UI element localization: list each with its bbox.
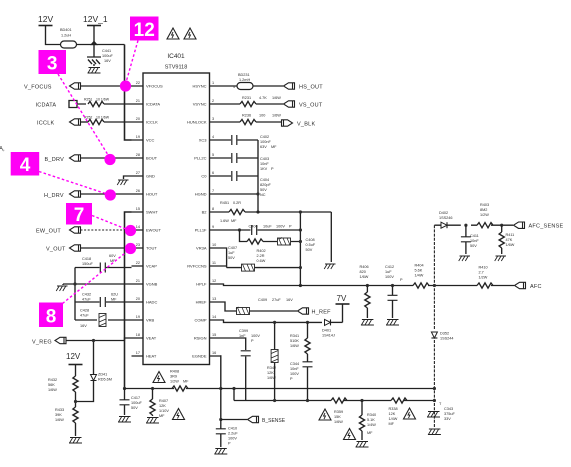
svg-text:100V: 100V xyxy=(385,275,394,279)
svg-text:C404: C404 xyxy=(260,178,269,182)
svg-text:ICDATA: ICDATA xyxy=(36,103,57,109)
resistor R451 0.2R 1.6W MF on B2 row xyxy=(220,201,331,223)
svg-text:VGNB: VGNB xyxy=(146,282,158,287)
wire AFC_SENSE row y=225.2 xyxy=(434,224,513,226)
warning triangle top A xyxy=(167,28,179,39)
ground below R411 xyxy=(495,256,506,261)
svg-text:5: 5 xyxy=(212,153,214,157)
svg-text:1/6W: 1/6W xyxy=(360,275,369,279)
svg-text:6: 6 xyxy=(212,171,214,175)
svg-text:100uF: 100uF xyxy=(131,401,142,405)
svg-text:50V: 50V xyxy=(260,188,267,192)
svg-text:C411: C411 xyxy=(470,234,479,238)
svg-text:HGND: HGND xyxy=(195,192,207,197)
wire callout 3 to B_DRV dot xyxy=(58,74,109,157)
capacitor C410 2.2uF 100V xyxy=(216,420,239,448)
svg-text:1KV: 1KV xyxy=(260,167,268,171)
svg-text:17: 17 xyxy=(136,351,140,355)
svg-text:VEAT: VEAT xyxy=(146,336,157,341)
svg-text:13: 13 xyxy=(212,297,216,301)
svg-text:C428: C428 xyxy=(80,309,89,313)
wire AFC bus on HPLF row y=285.5 xyxy=(222,284,515,286)
svg-text:R342: R342 xyxy=(267,366,276,370)
svg-text:3R9: 3R9 xyxy=(170,375,177,379)
svg-text:12V_1: 12V_1 xyxy=(83,14,108,24)
svg-text:1/6W: 1/6W xyxy=(506,243,515,247)
svg-text:RSIGN: RSIGN xyxy=(194,336,207,341)
warning triangle right of R338 xyxy=(404,408,416,419)
svg-text:R406: R406 xyxy=(360,265,369,269)
capacitor C406 10uF 100V P on PLL1F row xyxy=(222,225,301,236)
wire left vertical x=75 xyxy=(74,268,76,321)
node HS_OUT xyxy=(284,83,324,91)
wire callout 8 to TOUT dot xyxy=(63,250,130,304)
capacitor C428 47uF 16V on VRB row xyxy=(75,309,132,329)
svg-text:63V: 63V xyxy=(260,145,267,149)
svg-text:2.2uF: 2.2uF xyxy=(228,432,238,436)
svg-text:MF: MF xyxy=(183,380,189,384)
node dot VFOCUS xyxy=(120,80,131,91)
svg-text:27uF: 27uF xyxy=(272,298,281,302)
capacitor C399 1nF branch from RSIGN row xyxy=(222,329,261,401)
svg-text:50V: 50V xyxy=(131,406,138,410)
warning triangle left of R340 ground xyxy=(344,429,356,440)
svg-text:R451: R451 xyxy=(220,201,229,205)
svg-text:SWHT: SWHT xyxy=(146,210,158,215)
svg-text:375uF: 375uF xyxy=(444,412,455,416)
svg-text:7: 7 xyxy=(74,205,85,226)
svg-text:P: P xyxy=(290,377,293,381)
svg-text:12K: 12K xyxy=(389,412,396,416)
svg-text:MF: MF xyxy=(367,431,373,435)
svg-text:COMP: COMP xyxy=(195,318,207,323)
wire network common vertical x=300.4 xyxy=(299,212,301,286)
svg-text:21: 21 xyxy=(136,99,140,103)
ground right of network xyxy=(324,264,335,269)
svg-text:1SS246: 1SS246 xyxy=(439,216,453,220)
svg-text:1uF: 1uF xyxy=(228,251,235,255)
svg-text:HSYNC: HSYNC xyxy=(192,84,206,89)
node VS_OUT xyxy=(284,101,323,109)
node EW_OUT xyxy=(36,227,132,235)
svg-text:1/6W: 1/6W xyxy=(334,420,343,424)
IC401 left pin stubs xyxy=(132,86,144,356)
callout box 8 xyxy=(39,303,63,328)
capacitor C402 100nF on XC3 row xyxy=(222,135,278,149)
svg-text:1.6W: 1.6W xyxy=(220,219,229,223)
svg-text:4.7K: 4.7K xyxy=(259,96,267,100)
svg-text:MF: MF xyxy=(159,414,165,418)
svg-text:P: P xyxy=(228,442,231,446)
svg-text:IC401: IC401 xyxy=(167,53,185,60)
svg-text:R231: R231 xyxy=(242,96,251,100)
svg-text:R408: R408 xyxy=(170,370,179,374)
svg-text:V_BLK: V_BLK xyxy=(297,122,315,128)
svg-text:5.1K: 5.1K xyxy=(367,418,375,422)
svg-text:C417: C417 xyxy=(131,396,140,400)
svg-text:C412: C412 xyxy=(385,265,394,269)
svg-text:62U: 62U xyxy=(111,293,118,297)
resistor R404 5.6K 1/4W on AFC bus xyxy=(413,264,429,289)
resistor (hatched) on RVFCCNS row xyxy=(242,264,255,271)
svg-text:EWOUT: EWOUT xyxy=(146,228,161,233)
svg-text:20: 20 xyxy=(136,297,140,301)
svg-text:C432: C432 xyxy=(82,293,91,297)
svg-text:5.6K: 5.6K xyxy=(415,269,423,273)
svg-text:R433: R433 xyxy=(55,408,64,412)
svg-text:23: 23 xyxy=(136,243,140,247)
callout box 3 xyxy=(39,50,67,74)
resistor (hatched) on R402 row xyxy=(278,238,291,245)
svg-text:12: 12 xyxy=(134,20,155,41)
svg-text:MF: MF xyxy=(389,422,395,426)
svg-text:100: 100 xyxy=(259,114,265,118)
svg-text:47uF: 47uF xyxy=(80,314,89,318)
svg-text:10 1/6W: 10 1/6W xyxy=(96,116,110,120)
svg-text:R252: R252 xyxy=(84,116,92,120)
svg-text:10nF: 10nF xyxy=(470,239,479,243)
svg-text:ICCLK: ICCLK xyxy=(37,121,55,127)
svg-text:R236: R236 xyxy=(242,114,251,118)
svg-text:D352: D352 xyxy=(440,332,449,336)
resistor R251 xyxy=(88,101,132,106)
svg-text:18: 18 xyxy=(136,333,140,337)
node H_REF xyxy=(298,308,332,316)
svg-text:100V: 100V xyxy=(276,225,285,229)
resistor R236 100 1/6W on HUNLOCK row xyxy=(222,114,282,125)
ground pair below x=434 xyxy=(427,399,441,435)
svg-text:4: 4 xyxy=(212,135,214,139)
svg-text:2: 2 xyxy=(212,99,214,103)
svg-text:16V: 16V xyxy=(286,298,293,302)
svg-text:100uF: 100uF xyxy=(102,54,113,58)
wire pin16 EGNDE down xyxy=(220,356,223,420)
ground below C412 xyxy=(386,320,399,326)
node 12V_1 power rail xyxy=(77,14,125,57)
svg-text:56K: 56K xyxy=(48,383,55,387)
capacitor C403 10nF on PLL2C row xyxy=(222,153,275,171)
resistor R338 12K on bottom bus xyxy=(389,398,408,426)
svg-text:16V: 16V xyxy=(104,59,111,63)
svg-text:11: 11 xyxy=(212,261,216,265)
svg-text:B_SENSE: B_SENSE xyxy=(262,418,286,424)
capacitor C412 1uF 100V branch xyxy=(385,265,403,318)
svg-text:1nF: 1nF xyxy=(239,334,246,338)
resistor R411 47K branch xyxy=(499,224,515,254)
svg-text:3: 3 xyxy=(212,117,214,121)
svg-text:14: 14 xyxy=(212,315,216,319)
svg-text:C403: C403 xyxy=(260,157,269,161)
svg-text:1/6W: 1/6W xyxy=(267,376,276,380)
wire RVFCCNS row through hatched resistor xyxy=(222,266,301,268)
wire HREF pin row down to H_REF connector row xyxy=(222,302,238,311)
svg-text:D401: D401 xyxy=(322,329,331,333)
wire HGND row to common xyxy=(222,193,259,195)
svg-text:R403: R403 xyxy=(480,203,489,207)
svg-text:PLL1F: PLL1F xyxy=(195,228,207,233)
svg-text:22: 22 xyxy=(136,81,140,85)
svg-text:0.6W: 0.6W xyxy=(257,259,266,263)
svg-text:27: 27 xyxy=(136,171,140,175)
svg-text:C344: C344 xyxy=(290,362,299,366)
svg-text:HUNLOCK: HUNLOCK xyxy=(187,120,207,125)
svg-text:12K: 12K xyxy=(159,404,166,408)
svg-text:1/4W: 1/4W xyxy=(367,423,376,427)
svg-text:12V: 12V xyxy=(38,14,53,24)
svg-text:ICCLK: ICCLK xyxy=(146,120,158,125)
resistor (hatched) on H_REF row xyxy=(237,308,250,315)
svg-text:2.2R: 2.2R xyxy=(257,254,265,258)
ground branch from R451 row xyxy=(330,212,332,262)
node dot B_DRV xyxy=(104,154,115,165)
node B_SENSE xyxy=(221,416,286,424)
node AFC xyxy=(515,282,542,290)
svg-text:100V: 100V xyxy=(290,372,299,376)
svg-text:21: 21 xyxy=(136,279,140,283)
svg-text:820pF: 820pF xyxy=(260,183,271,187)
ground below C441 xyxy=(88,68,101,74)
capacitor C432 47uF 62V on HADC row xyxy=(75,293,132,308)
svg-text:C441: C441 xyxy=(102,49,111,53)
inductor BD231 1.2mH on HSYNC row xyxy=(222,73,284,90)
svg-text:19: 19 xyxy=(136,315,140,319)
svg-text:1: 1 xyxy=(212,81,214,85)
svg-text:VSYNC: VSYNC xyxy=(193,102,207,107)
svg-text:MF: MF xyxy=(111,298,117,302)
svg-text:EW_OUT: EW_OUT xyxy=(36,229,61,235)
svg-text:19: 19 xyxy=(136,135,140,139)
svg-text:12V: 12V xyxy=(66,352,81,361)
svg-text:VRB: VRB xyxy=(146,318,155,323)
node dot TOUT xyxy=(125,243,136,254)
capacitor C418 150uF 60V on VCAP row xyxy=(75,254,132,273)
capacitor C411 10nF 50V branch xyxy=(461,224,479,254)
svg-text:1/4W: 1/4W xyxy=(415,274,424,278)
svg-text:50V: 50V xyxy=(228,256,235,260)
capacitor C408 0.5uF 50V label xyxy=(306,238,316,252)
diode D401 1S414J xyxy=(322,319,343,337)
svg-text:1S414J: 1S414J xyxy=(322,334,335,338)
svg-text:P: P xyxy=(400,278,403,282)
svg-text:V_OUT: V_OUT xyxy=(46,247,66,253)
svg-text:HOUT: HOUT xyxy=(146,192,158,197)
svg-text:P: P xyxy=(251,339,254,343)
IC401 right pin numbers xyxy=(212,81,216,355)
svg-text:12: 12 xyxy=(212,279,216,283)
svg-text:4: 4 xyxy=(233,85,235,89)
svg-text:C408: C408 xyxy=(306,238,315,242)
svg-text:15K: 15K xyxy=(334,415,341,419)
svg-text:BOUT: BOUT xyxy=(146,156,158,161)
svg-text:RVFCCNS: RVFCCNS xyxy=(187,264,207,269)
svg-text:TOUT: TOUT xyxy=(146,246,157,251)
svg-text:1/2W: 1/2W xyxy=(170,380,179,384)
svg-text:HPLF: HPLF xyxy=(196,282,207,287)
warning triangle near R408 xyxy=(153,372,165,383)
svg-text:47K: 47K xyxy=(506,238,513,242)
svg-text:R407: R407 xyxy=(159,399,168,403)
svg-text:C410: C410 xyxy=(228,427,237,431)
svg-text:2.7: 2.7 xyxy=(479,271,484,275)
svg-text:RD5.6M: RD5.6M xyxy=(98,378,112,382)
wire left vertical bus x=124.5 (EHT/V_REG rail) xyxy=(125,212,132,389)
svg-text:22: 22 xyxy=(136,261,140,265)
svg-text:R411: R411 xyxy=(506,233,515,237)
svg-text:C407: C407 xyxy=(228,246,237,250)
svg-text:8M2: 8M2 xyxy=(480,208,487,212)
svg-text:MF: MF xyxy=(231,219,237,223)
node AFC_SENSE xyxy=(514,222,564,230)
node dot H_DRV xyxy=(105,189,116,200)
svg-text:1/6W: 1/6W xyxy=(272,114,281,118)
IC401 left pin names xyxy=(146,84,163,359)
node 7V power xyxy=(336,294,350,322)
svg-text:PLL2C: PLL2C xyxy=(194,156,206,161)
svg-text:EGNDE: EGNDE xyxy=(192,354,207,359)
svg-text:10 1/6W: 10 1/6W xyxy=(96,98,110,102)
svg-text:NC: NC xyxy=(260,193,266,197)
ground below R407 xyxy=(146,418,159,424)
svg-text:A,: A, xyxy=(0,147,5,153)
svg-text:B2: B2 xyxy=(202,210,208,215)
svg-text:15: 15 xyxy=(136,207,140,211)
wire long row y=388.5 to x=434 xyxy=(221,388,435,390)
svg-text:150uF: 150uF xyxy=(82,262,93,266)
svg-text:1.2uH: 1.2uH xyxy=(61,34,71,38)
node H_DRV xyxy=(44,191,132,199)
svg-text:R404: R404 xyxy=(415,264,424,268)
svg-text:39K: 39K xyxy=(55,413,62,417)
svg-text:HADC: HADC xyxy=(146,300,157,305)
wire callout 4 to H_DRV dot xyxy=(39,172,109,195)
svg-text:1/6W: 1/6W xyxy=(290,344,299,348)
svg-text:50V: 50V xyxy=(306,248,313,252)
svg-text:C418: C418 xyxy=(82,257,91,261)
ground at pin 27 GND xyxy=(117,176,131,185)
svg-text:GND: GND xyxy=(146,174,155,179)
svg-text:VFOCUS: VFOCUS xyxy=(146,84,163,89)
svg-text:R359: R359 xyxy=(334,410,343,414)
IC401 left pin numbers xyxy=(136,81,140,355)
callout box 7 xyxy=(66,203,92,225)
wire 12V_1 rail down the left of IC to VCC pin xyxy=(125,45,132,141)
node 12V lower power xyxy=(66,352,83,376)
resistor R406 820 branch xyxy=(360,265,371,318)
svg-text:100V: 100V xyxy=(228,437,237,441)
node ICDATA xyxy=(36,98,110,109)
svg-text:1/2W: 1/2W xyxy=(480,213,489,217)
svg-text:1uF: 1uF xyxy=(385,270,392,274)
svg-text:1/6W: 1/6W xyxy=(48,388,57,392)
resistor R359 15K on bottom bus xyxy=(331,398,347,403)
svg-text:9: 9 xyxy=(212,225,214,229)
svg-text:VR3A: VR3A xyxy=(196,246,207,251)
wire VGNB row to ground xyxy=(63,284,132,285)
node B_DRV xyxy=(45,155,132,163)
callout box 12 xyxy=(130,17,159,41)
svg-text:50V: 50V xyxy=(470,244,477,248)
ground below C411 xyxy=(459,256,470,261)
svg-text:HREF: HREF xyxy=(196,300,207,305)
svg-text:15: 15 xyxy=(212,333,216,337)
diode D402 1SS244 xyxy=(439,211,453,228)
svg-text:MF: MF xyxy=(271,145,277,149)
capacitor C344 10nF on R341 branch xyxy=(290,362,313,381)
svg-text:1/6W: 1/6W xyxy=(272,96,281,100)
ground below R340 xyxy=(356,442,369,448)
node 12V power rail xyxy=(38,14,61,45)
capacitor C417 100uF 50V xyxy=(120,387,143,415)
svg-text:1.2mH: 1.2mH xyxy=(239,78,250,82)
svg-text:AFC: AFC xyxy=(530,284,542,290)
resistor R340 5.1K branch to ground xyxy=(359,401,376,441)
svg-text:820: 820 xyxy=(360,270,366,274)
svg-text:510K: 510K xyxy=(290,339,299,343)
op-amp U1 : IC401 STV9118 deflection processor body xyxy=(143,53,210,365)
wire VR3A row xyxy=(222,248,227,268)
wire bottom row y=388.5 xyxy=(125,388,221,390)
IC401 right pin names xyxy=(187,84,207,359)
resistor R408 3R9 1.6W MF xyxy=(170,370,189,392)
svg-text:14: 14 xyxy=(136,225,140,229)
svg-text:C0: C0 xyxy=(201,174,207,179)
junction VGNB/x75 xyxy=(73,282,76,285)
warning triangle near R359 xyxy=(319,409,331,420)
svg-text:100nF: 100nF xyxy=(260,140,271,144)
resistor R342 12K (hatched) branch xyxy=(267,322,276,400)
svg-text:T: T xyxy=(439,402,442,406)
svg-text:10uF: 10uF xyxy=(263,225,272,229)
zener ZD41 RD5.6M xyxy=(74,339,112,403)
svg-text:0.2R: 0.2R xyxy=(233,201,241,205)
inductor BD401 1.2uH xyxy=(60,28,77,48)
svg-text:C409: C409 xyxy=(258,298,267,302)
svg-text:60V: 60V xyxy=(109,254,116,258)
svg-text:3: 3 xyxy=(47,54,58,75)
callout box 4 xyxy=(11,152,40,176)
svg-text:C402: C402 xyxy=(260,135,269,139)
svg-text:R340: R340 xyxy=(367,413,376,417)
ground below C417 xyxy=(118,417,131,423)
svg-text:1/4W: 1/4W xyxy=(389,417,398,421)
node V_REG xyxy=(32,337,132,345)
resistor R410 2.7 1/2W on AFC bus xyxy=(477,266,493,289)
svg-text:47uF: 47uF xyxy=(82,298,91,302)
wire cap-bank common vertical x=258 xyxy=(257,140,259,212)
ground below C410 xyxy=(214,449,227,455)
svg-text:100V: 100V xyxy=(251,334,260,338)
svg-text:C343: C343 xyxy=(444,407,453,411)
svg-text:1/2W: 1/2W xyxy=(479,276,488,280)
capacitor C407 1uF 50V label xyxy=(228,246,237,260)
svg-text:1SS244: 1SS244 xyxy=(440,337,454,341)
wire COMP row y=322.4 xyxy=(222,320,323,322)
svg-text:V_REG: V_REG xyxy=(32,340,52,346)
resistor R432 56K xyxy=(48,376,78,407)
capacitor C404 820pF on C0 row xyxy=(222,171,272,197)
svg-text:VCC: VCC xyxy=(146,138,155,143)
svg-text:R338: R338 xyxy=(389,407,398,411)
svg-text:STV9118: STV9118 xyxy=(165,65,188,71)
capacitor C409 27uF 16V label xyxy=(258,298,293,302)
svg-text:16: 16 xyxy=(212,351,216,355)
svg-text:HEAT: HEAT xyxy=(146,354,157,359)
svg-text:P: P xyxy=(271,167,274,171)
svg-text:R432: R432 xyxy=(48,378,57,382)
svg-text:HS_OUT: HS_OUT xyxy=(299,85,323,91)
wire callout 12 to VFOCUS dot xyxy=(126,41,138,84)
capacitor C343 375uF label xyxy=(439,402,455,421)
